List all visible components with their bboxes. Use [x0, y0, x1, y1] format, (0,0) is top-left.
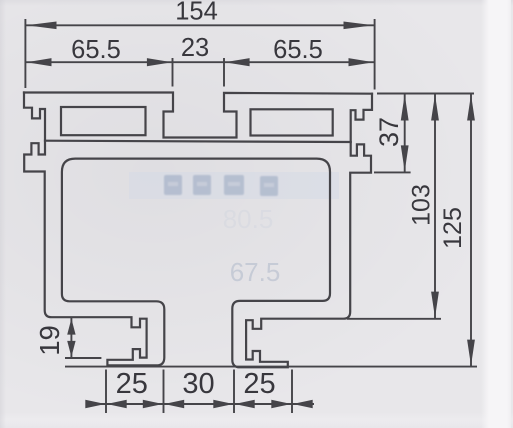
svg-text:37: 37: [374, 117, 404, 147]
bottom dims extension lines: [106, 370, 292, 414]
dim 103 bottom extension: [347, 318, 441, 320]
arrows dim 65.5 left: [27, 58, 52, 66]
arrows dim 125: [467, 95, 475, 121]
right chamber: [251, 109, 333, 135]
left chamber: [61, 107, 146, 135]
svg-text:103: 103: [408, 184, 436, 226]
bottom dim arrow pairs: [85, 400, 105, 409]
bottom dim line: [86, 403, 314, 405]
arrows dim 154: [27, 22, 57, 30]
dim 37 line: [404, 94, 406, 173]
watermark band: [129, 172, 339, 199]
flange bottom web line: [45, 141, 351, 142]
dim 154 line: [25, 24, 374, 26]
svg-text:67.5: 67.5: [230, 257, 281, 287]
dim 19 bottom extension: [65, 357, 101, 359]
svg-text:25: 25: [243, 368, 275, 400]
right top extension line: [377, 93, 474, 95]
dim 19 line: [70, 318, 72, 359]
svg-text:154: 154: [175, 0, 218, 26]
arrows dim 37: [401, 95, 409, 121]
svg-text:19: 19: [34, 325, 65, 356]
dim 37 bottom extension: [374, 171, 411, 173]
svg-text:125: 125: [439, 207, 467, 249]
svg-text:25: 25: [116, 368, 148, 400]
profile top edge with T-slot: [24, 93, 372, 138]
dim mid extension lines: [173, 58, 225, 87]
dim 125 line: [470, 94, 472, 367]
svg-text:30: 30: [182, 368, 214, 400]
arrow dim 65.5 right end: [349, 58, 374, 66]
arrows dim 103: [431, 95, 439, 121]
svg-text:65.5: 65.5: [273, 36, 323, 64]
profile main contour: [24, 93, 372, 368]
arrow at 23 right (outside): [225, 58, 250, 66]
svg-text:65.5: 65.5: [71, 36, 121, 64]
dim 65.5/23/65.5 line: [25, 61, 374, 63]
dim 125 bottom extension (long): [65, 366, 477, 368]
dim 154 extension lines: [25, 19, 374, 90]
svg-text:23: 23: [181, 34, 209, 62]
svg-text:80.5: 80.5: [223, 204, 274, 234]
dim 103 line: [434, 94, 436, 319]
arrows dim 19: [67, 319, 75, 335]
